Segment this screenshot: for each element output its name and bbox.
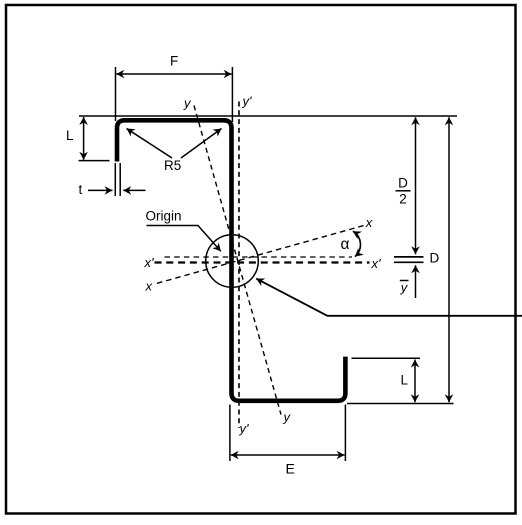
dimension t arrow pointing left [123, 189, 145, 191]
mid-depth thin dashed horizontal line [165, 256, 353, 258]
rotated y axis dashed line [194, 106, 281, 415]
x' centroid axis bold dashed horizontal line [155, 261, 370, 263]
dimension L (top left) arrow line [83, 117, 85, 160]
right lip top extension line [352, 357, 421, 359]
svg-text:α: α [341, 236, 350, 253]
R5 leader arrow to right corner radius [181, 129, 222, 159]
mid-depth marker upper line [394, 256, 424, 258]
Z-profile (thick section outline) [117, 120, 345, 401]
L bottom tick line [79, 160, 110, 162]
dimension t arrow pointing right [88, 189, 113, 191]
origin circle [206, 235, 259, 288]
svg-text:L: L [66, 128, 74, 143]
y-bar overbar [400, 280, 409, 282]
svg-text:x: x [365, 215, 373, 230]
y' axis vertical dashed line [238, 102, 240, 429]
svg-text:y': y' [239, 421, 250, 436]
svg-text:x: x [145, 279, 153, 294]
svg-text:x': x' [371, 256, 382, 271]
svg-text:2: 2 [399, 192, 407, 207]
left lip thickness lines (t) [114, 163, 116, 196]
y-bar up arrow [415, 265, 417, 298]
dimension L (bottom right) arrow line [414, 360, 416, 403]
top reference line at flange-top level [79, 115, 457, 117]
R5 leader arrow to left corner radius [127, 129, 173, 159]
dimension F extension lines [115, 67, 117, 121]
svg-text:F: F [170, 54, 178, 69]
leader from centroid to right edge [256, 279, 522, 316]
svg-text:L: L [401, 373, 409, 388]
E left extension line [229, 405, 231, 462]
svg-text:y': y' [242, 94, 253, 109]
svg-text:x': x' [144, 255, 155, 270]
rotated x axis dashed line [157, 226, 364, 284]
svg-text:D: D [430, 251, 440, 266]
svg-text:D: D [398, 176, 408, 191]
centroid level marker lower line [394, 261, 424, 263]
angle alpha arc with arrows [353, 231, 361, 256]
D/2 dimension arrow line [415, 117, 417, 254]
svg-text:R5: R5 [164, 158, 181, 173]
bottom flange reference line [347, 403, 454, 405]
Origin leader with underline [147, 226, 221, 252]
dimension F arrow line [116, 73, 231, 75]
E right extension line [344, 405, 346, 462]
svg-text:t: t [79, 182, 83, 197]
D dimension arrow line [448, 117, 450, 402]
fraction bar [396, 190, 411, 192]
svg-text:Origin: Origin [146, 209, 182, 224]
svg-text:E: E [286, 461, 295, 477]
dimension E arrow line [231, 454, 345, 456]
